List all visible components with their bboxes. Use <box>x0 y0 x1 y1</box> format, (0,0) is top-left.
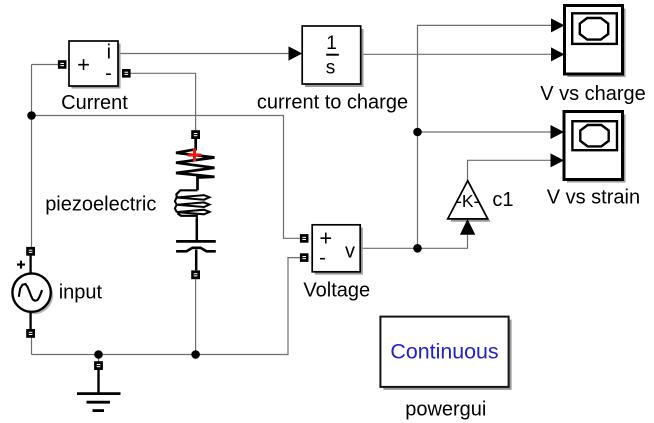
integrator block 1/s <box>302 26 363 87</box>
svg-text:i: i <box>107 42 111 64</box>
svg-text:piezoelectric: piezoelectric <box>45 194 156 216</box>
ground symbol <box>77 370 121 411</box>
scope block V vs charge <box>565 6 626 78</box>
scope V vs charge input arrow 1 <box>551 18 565 32</box>
svg-text:-: - <box>319 247 326 269</box>
powergui block Continuous <box>380 317 511 390</box>
port: piezoelectric top <box>191 130 200 139</box>
port: voltage + <box>300 234 309 243</box>
node: junction on left rail <box>27 111 36 120</box>
piezoelectric series RLC branch <box>175 139 216 270</box>
port: ground <box>94 361 103 370</box>
svg-text:Voltage: Voltage <box>303 280 370 302</box>
wire: ground bus stub down to ground port <box>98 355 100 362</box>
scope V vs strain input arrow 1 <box>551 125 565 139</box>
wire: gain c1 output up and right to scope V vs strain input 2 <box>468 160 552 180</box>
svg-text:-K-: -K- <box>456 191 480 211</box>
wire: bottom ground bus across and up to voltage - port <box>32 258 301 355</box>
scope V vs strain input arrow 2 <box>551 153 565 167</box>
node: junction voltage output / gain branch <box>413 244 422 253</box>
AC voltage source input <box>12 256 53 330</box>
svg-text:-: - <box>105 63 112 85</box>
node: junction ground bus at ground <box>94 350 103 359</box>
port: input - <box>26 329 35 338</box>
svg-text:current to charge: current to charge <box>257 92 408 114</box>
port: piezoelectric bottom <box>191 270 200 279</box>
wire: left vertical rail (current + down to input + port) <box>31 65 33 248</box>
resistor (zigzag) <box>176 139 215 190</box>
inductor (coil loops) <box>176 190 197 197</box>
wire: input - port down to ground bus <box>31 338 33 355</box>
capacitor <box>196 219 199 242</box>
svg-text:Continuous: Continuous <box>390 340 498 364</box>
node: junction ground bus below piezoelectric <box>191 350 200 359</box>
svg-text:input: input <box>59 282 103 304</box>
resistor red polarity + <box>188 148 202 161</box>
gain c1 input arrowhead <box>460 219 475 235</box>
svg-text:V vs charge: V vs charge <box>540 83 646 105</box>
svg-text:1: 1 <box>326 33 337 54</box>
svg-text:v: v <box>345 241 355 263</box>
port: voltage - <box>300 253 309 262</box>
port: input + <box>26 247 35 256</box>
wire: current i output to integrator input <box>119 53 290 55</box>
svg-text:V vs strain: V vs strain <box>547 187 640 209</box>
wire: piezoelectric bottom port down to ground bus <box>195 279 197 354</box>
port: current + <box>58 60 67 69</box>
port: current - <box>122 69 131 78</box>
svg-text:c1: c1 <box>492 189 513 211</box>
wire: junction right and up into gain c1 input arrowhead <box>418 235 468 248</box>
gain block c1 (-K- triangle) <box>448 181 491 222</box>
wire: current - port across and down to piezoelectric top port <box>130 73 195 130</box>
node: junction measurement rail to V vs strain <box>413 128 422 137</box>
svg-text:+: + <box>77 52 90 77</box>
scope block V vs strain <box>564 112 626 183</box>
scope V vs charge input arrow 2 <box>551 47 565 61</box>
integrator input arrow <box>289 46 303 60</box>
wire: voltage v output to junction <box>360 247 417 249</box>
svg-text:powergui: powergui <box>405 399 486 421</box>
voltage measurement block Voltage <box>312 225 363 275</box>
wire: node at rail to voltage + port (across, down, right) <box>32 116 301 239</box>
svg-text:s: s <box>326 58 336 79</box>
wire: rail branch to scope V vs strain input 1 <box>418 131 552 133</box>
wire: current + port to left vertical rail <box>32 64 59 66</box>
svg-text:Current: Current <box>61 92 128 114</box>
wire: junction up the measurement rail and right to scope V vs charge input 1 <box>418 25 552 248</box>
current measurement block Current <box>69 41 121 89</box>
wire: integrator output to scope V vs charge input 2 <box>361 53 552 55</box>
